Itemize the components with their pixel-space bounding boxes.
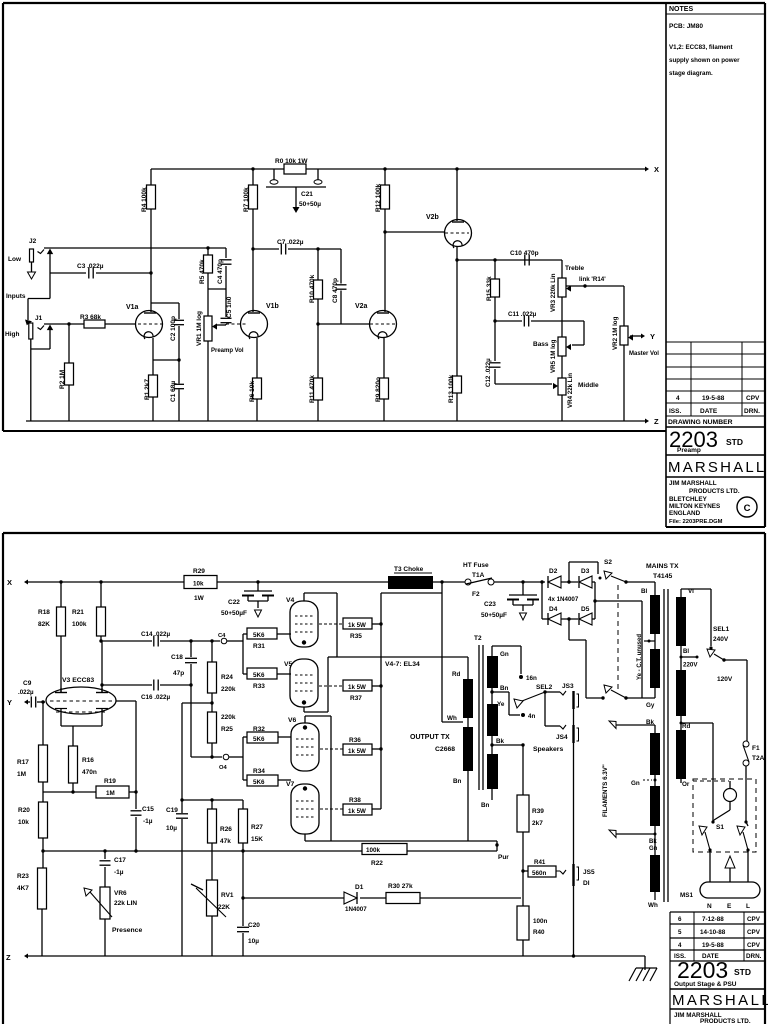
svg-text:Gn: Gn <box>631 780 640 787</box>
wire V3 right to C15 line <box>116 700 136 702</box>
svg-text:1k 5W: 1k 5W <box>348 684 366 691</box>
wire SEL2 branch to JS4 tip <box>544 692 546 726</box>
svg-text:Presence: Presence <box>112 927 142 934</box>
svg-text:E: E <box>727 903 732 910</box>
resistor R21 100k <box>99 580 102 583</box>
sheet border (bottom sheet) <box>3 532 765 534</box>
svg-text:6: 6 <box>678 916 682 923</box>
node X arrow <box>645 167 649 172</box>
node O4 connector wire <box>191 756 222 758</box>
node Y arrow input <box>24 700 28 705</box>
capacitor C10 470p <box>524 255 526 266</box>
wire 16 ohm tap <box>491 646 493 656</box>
svg-text:220k: 220k <box>221 686 236 693</box>
wire J1 sleeve to ground rail <box>49 330 51 349</box>
svg-text:Bk: Bk <box>496 738 505 745</box>
wire bridge right leg to AC2 <box>592 581 595 583</box>
svg-text:50+50µF: 50+50µF <box>221 610 247 617</box>
bottom title block issue table <box>670 911 765 913</box>
resistor R27 15K <box>242 800 244 809</box>
capacitor C21 50+50u to ground arrow <box>295 187 297 207</box>
wire anode to C2 <box>151 302 179 304</box>
valve V7 EL34 <box>291 784 319 834</box>
wire V3 cathode bracket <box>60 709 62 727</box>
valve V6 EL34 <box>291 723 319 771</box>
svg-text:D3: D3 <box>581 568 590 575</box>
resistor R15 33k <box>493 258 496 261</box>
svg-text:R7 100k: R7 100k <box>243 187 250 212</box>
svg-text:CPV: CPV <box>746 395 760 402</box>
wire ground drop and chassis symbol <box>644 956 646 970</box>
svg-text:Gy: Gy <box>646 702 655 709</box>
svg-text:R12 100k: R12 100k <box>375 183 382 212</box>
wire J2 tip to VR1/C4 junction <box>44 247 226 249</box>
svg-text:R39: R39 <box>532 808 544 815</box>
svg-text:22K: 22K <box>218 904 230 911</box>
svg-text:R16: R16 <box>82 757 94 764</box>
svg-text:R27: R27 <box>251 824 263 831</box>
svg-text:Output Stage & PSU: Output Stage & PSU <box>674 981 737 988</box>
resistor R13 100k <box>453 376 462 393</box>
svg-text:R5 470k: R5 470k <box>199 259 206 284</box>
capacitor C12 .022u <box>490 362 501 364</box>
svg-text:R37: R37 <box>350 695 362 702</box>
wire C11 branch <box>495 320 522 322</box>
capacitor C1 68u electrolytic <box>178 360 180 384</box>
wire treble wiper link R14 <box>566 285 624 287</box>
resistor R36 1k 5W <box>320 748 343 750</box>
svg-text:Treble: Treble <box>565 265 585 272</box>
mains TX HT winding <box>650 595 660 634</box>
svg-text:1M: 1M <box>17 771 26 778</box>
svg-text:FILAMENTS 6.3V": FILAMENTS 6.3V" <box>602 764 609 817</box>
resistor R16 470n <box>69 746 78 783</box>
wire V1a cathode to R1 <box>152 338 154 375</box>
wire low branch to C3 <box>50 272 86 274</box>
title block issue table <box>666 341 765 343</box>
svg-text:T1A: T1A <box>472 572 485 579</box>
potentiometer VR4 22k lin Middle <box>561 356 563 378</box>
svg-text:JS4: JS4 <box>556 734 568 741</box>
resistor R23 4K7 <box>41 849 44 852</box>
svg-text:DRN.: DRN. <box>744 408 760 415</box>
svg-text:Bl: Bl <box>683 649 689 655</box>
wire R12 to V2a anode <box>384 209 386 312</box>
resistor R29 10k 1W <box>184 576 217 589</box>
svg-text:T3 Choke: T3 Choke <box>394 566 424 573</box>
resistor R35 1k 5W <box>319 623 343 625</box>
svg-text:100n: 100n <box>533 918 548 925</box>
wire 220V tap <box>680 646 682 670</box>
svg-text:R10 470k: R10 470k <box>309 274 316 303</box>
svg-text:T2: T2 <box>474 635 482 642</box>
resistor R18 82K <box>59 580 62 583</box>
svg-text:Rd: Rd <box>452 671 461 678</box>
svg-text:R3 68k: R3 68k <box>80 314 101 321</box>
svg-text:4x 1N4007: 4x 1N4007 <box>548 596 579 603</box>
triode V1a <box>136 311 163 338</box>
svg-text:C23: C23 <box>484 601 496 608</box>
resistor R30 27k <box>386 893 420 904</box>
resistor R12 100k anode load V2a <box>384 169 386 185</box>
wire V2b anode to B+ rail <box>456 169 458 221</box>
svg-text:C17: C17 <box>114 857 126 864</box>
label Wh heater bottom <box>654 892 656 900</box>
wire heater junction Gn <box>654 775 656 786</box>
capacitor C17 .1u <box>103 849 106 852</box>
svg-text:DRN.: DRN. <box>746 953 762 960</box>
wire R24/R25 junction to NFB line <box>210 701 213 704</box>
svg-text:4: 4 <box>676 395 680 402</box>
svg-text:VR3 220k Lin: VR3 220k Lin <box>550 273 557 312</box>
output transformer T2 primary <box>463 679 473 718</box>
mains TX primary winding <box>676 597 686 646</box>
svg-text:R33: R33 <box>253 683 265 690</box>
svg-text:2k7: 2k7 <box>532 820 543 827</box>
wire V6 anode <box>304 716 306 723</box>
svg-text:240V: 240V <box>713 636 729 643</box>
svg-text:R2 1M: R2 1M <box>59 370 66 389</box>
svg-text:7-12-88: 7-12-88 <box>702 916 724 923</box>
wire X rail <box>28 581 184 583</box>
resistor R24 220k <box>210 639 213 642</box>
svg-text:V3 ECC83: V3 ECC83 <box>62 677 94 684</box>
capacitor C15 .1u <box>135 792 137 809</box>
svg-text:Bn: Bn <box>500 685 509 692</box>
jack JS5 DI <box>572 864 574 886</box>
svg-text:D4: D4 <box>549 606 558 613</box>
svg-text:L: L <box>746 903 750 910</box>
capacitor C22 50+50uF <box>256 580 259 583</box>
svg-text:R19: R19 <box>104 778 116 785</box>
svg-text:C21: C21 <box>301 191 313 198</box>
svg-text:C19: C19 <box>166 807 178 814</box>
svg-text:R34: R34 <box>253 768 265 775</box>
svg-text:5K6: 5K6 <box>253 672 265 679</box>
wire low jack link down to high jack <box>49 253 51 299</box>
wire J1 tip to grid V1a <box>44 323 84 325</box>
svg-text:Preamp: Preamp <box>677 447 701 454</box>
earth arrow <box>725 856 735 868</box>
svg-text:DI: DI <box>583 880 590 887</box>
diode D5 <box>561 618 578 620</box>
svg-text:19-5-88: 19-5-88 <box>702 395 725 402</box>
svg-text:.022µ: .022µ <box>18 689 34 696</box>
svg-text:Gn: Gn <box>649 846 658 852</box>
svg-text:VR4 22k Lin: VR4 22k Lin <box>567 373 574 408</box>
svg-text:V4-7: EL34: V4-7: EL34 <box>385 661 420 668</box>
potentiometer VR6 22k LIN Presence <box>100 887 110 919</box>
svg-text:5K6: 5K6 <box>253 779 265 786</box>
svg-text:Wh: Wh <box>447 715 457 722</box>
svg-text:Bn: Bn <box>453 778 462 785</box>
wire ground bottom rail to Z <box>26 420 645 422</box>
wire bridge bottom loop to S2 pole 2 <box>568 619 570 640</box>
svg-text:MAINS TX: MAINS TX <box>646 563 679 570</box>
wire C7 coupling <box>253 248 279 250</box>
svg-text:100k: 100k <box>72 621 87 628</box>
svg-text:R13 100k: R13 100k <box>448 374 455 403</box>
wire bridge top loop to S2 <box>568 562 570 582</box>
svg-text:DATE: DATE <box>700 408 718 415</box>
svg-text:RV1: RV1 <box>221 892 234 899</box>
potentiometer VR3 220k lin Treble <box>561 260 563 278</box>
svg-text:R29: R29 <box>193 568 205 575</box>
wire O4 node to grid stoppers <box>242 737 244 780</box>
svg-text:120V: 120V <box>717 676 733 683</box>
svg-text:MARSHALL: MARSHALL <box>672 992 768 1009</box>
node X arrow input <box>24 580 28 585</box>
svg-text:link 'R14': link 'R14' <box>579 276 606 283</box>
svg-text:R1 2k7: R1 2k7 <box>144 379 151 400</box>
wire V2a anode to V2b grid <box>385 231 445 233</box>
svg-text:R35: R35 <box>350 633 362 640</box>
svg-text:470n: 470n <box>82 769 97 776</box>
svg-text:C9: C9 <box>23 680 32 687</box>
wire Rd tap to switch <box>680 716 682 730</box>
svg-text:J2: J2 <box>29 238 37 245</box>
svg-text:C20: C20 <box>248 922 260 929</box>
capacitor C2 100p <box>178 303 180 319</box>
fuse F1 T2A <box>743 741 749 747</box>
switch S2 standby pole 2 <box>604 685 612 693</box>
svg-text:4n: 4n <box>528 713 536 720</box>
svg-text:220V: 220V <box>683 662 698 669</box>
svg-text:Z: Z <box>654 417 659 426</box>
svg-text:V1,2: ECC83, filament: V1,2: ECC83, filament <box>669 44 733 51</box>
svg-text:MILTON KEYNES: MILTON KEYNES <box>669 503 720 510</box>
svg-text:C18: C18 <box>171 654 183 661</box>
resistor R20 10k <box>42 792 44 802</box>
wire V4 anode <box>303 593 305 601</box>
wire SEL1 to fuse F1 <box>724 659 747 661</box>
svg-text:R15 33k: R15 33k <box>486 276 493 301</box>
svg-text:V1b: V1b <box>266 303 279 310</box>
wire secondary bottom Bn <box>491 789 493 800</box>
svg-text:File: 2203PRE.DGM: File: 2203PRE.DGM <box>669 519 723 525</box>
valve V3 ECC83 <box>46 687 116 714</box>
svg-text:C1 68µ: C1 68µ <box>170 381 177 402</box>
svg-text:C14 .022µ: C14 .022µ <box>141 631 171 638</box>
svg-text:1k 5W: 1k 5W <box>348 622 366 629</box>
svg-text:R18: R18 <box>38 609 50 616</box>
svg-text:-1µ: -1µ <box>143 818 153 825</box>
jack JS4 speaker <box>572 725 574 743</box>
svg-text:R24: R24 <box>221 674 233 681</box>
svg-text:R9 820o: R9 820o <box>375 377 382 402</box>
svg-text:R11 470k: R11 470k <box>309 375 316 403</box>
potentiometer VR1 1M log Preamp Vol <box>204 316 212 341</box>
svg-text:560n: 560n <box>532 870 547 877</box>
svg-text:15K: 15K <box>251 836 263 843</box>
svg-text:Z: Z <box>6 953 11 962</box>
svg-text:SEL2: SEL2 <box>536 684 553 691</box>
node Pur NFB takeoff <box>496 841 498 851</box>
mains TX heater windings <box>650 733 660 775</box>
svg-text:Y: Y <box>650 332 655 341</box>
wire Or bottom tap to lamp <box>680 779 682 783</box>
svg-text:CPV: CPV <box>747 929 761 936</box>
svg-text:R4 100k: R4 100k <box>141 187 148 212</box>
svg-text:C4: C4 <box>218 633 226 639</box>
wire SEL2 to JS3 tip <box>545 691 560 693</box>
svg-text:C: C <box>744 503 751 514</box>
svg-text:BLETCHLEY: BLETCHLEY <box>669 496 708 503</box>
resistor R1 2k7 <box>149 375 158 397</box>
triode V1b <box>241 311 268 338</box>
standoff terminals under R0 <box>273 169 275 180</box>
svg-text:5: 5 <box>678 929 682 936</box>
svg-text:Gn: Gn <box>500 651 509 658</box>
output transformer T2 secondary <box>487 656 498 688</box>
wire V7 anode <box>304 834 306 841</box>
node Z arrow <box>645 419 649 424</box>
wire B+ to OT centre tap <box>441 593 443 722</box>
svg-text:5K6: 5K6 <box>253 736 265 743</box>
svg-text:Inputs: Inputs <box>6 293 26 300</box>
svg-text:CPV: CPV <box>747 942 761 949</box>
copyright symbol <box>737 497 757 517</box>
svg-text:47k: 47k <box>220 838 231 845</box>
svg-text:C8 470p: C8 470p <box>332 278 339 303</box>
wire screens bus <box>440 580 443 583</box>
resistor R25 220k <box>208 712 217 743</box>
svg-text:4: 4 <box>678 942 682 949</box>
svg-text:ISS.: ISS. <box>669 408 681 415</box>
bottom drawing number 2203 STD Output Stage and PSU <box>669 961 671 1024</box>
svg-text:OUTPUT TX: OUTPUT TX <box>410 734 450 741</box>
svg-text:R31: R31 <box>253 643 265 650</box>
resistor R41 560n to DI jack <box>521 869 524 872</box>
svg-text:DRAWING NUMBER: DRAWING NUMBER <box>668 419 733 426</box>
diode D2 <box>540 580 543 583</box>
svg-text:VR2 1M log: VR2 1M log <box>612 316 619 350</box>
mains plug MS1 <box>700 882 760 898</box>
svg-text:Speakers: Speakers <box>533 746 563 753</box>
capacitor C19 10u <box>176 813 188 815</box>
svg-text:supply shown on power: supply shown on power <box>669 57 740 64</box>
wire C18 junction down to O4 wire <box>190 685 192 757</box>
svg-text:220k: 220k <box>221 714 236 721</box>
capacitor C8 470p <box>340 249 342 284</box>
svg-text:R41: R41 <box>534 859 546 866</box>
capacitor C23 50+50uF <box>521 580 524 583</box>
svg-text:Or: Or <box>682 781 690 788</box>
svg-text:Wh: Wh <box>648 902 658 909</box>
svg-text:50+50µF: 50+50µF <box>481 612 507 619</box>
resistor R38 1k 5W <box>320 808 343 810</box>
svg-text:C5 1n0: C5 1n0 <box>226 296 233 318</box>
svg-text:MS1: MS1 <box>680 892 693 899</box>
capacitor C5 1n0 <box>225 289 227 317</box>
diode D3 <box>561 581 578 583</box>
svg-text:R0 10k 1W: R0 10k 1W <box>275 158 308 165</box>
svg-text:JS5: JS5 <box>583 869 595 876</box>
svg-text:10k: 10k <box>193 581 204 588</box>
svg-text:19-5-88: 19-5-88 <box>702 942 724 949</box>
svg-text:Ye - C.T. unused: Ye - C.T. unused <box>637 634 643 680</box>
wire R10 bottom to grid wire <box>317 299 319 324</box>
fuse F2 HT Fuse T1A <box>465 579 471 585</box>
svg-text:V4: V4 <box>286 597 295 604</box>
resistor R7 100k anode load V1b <box>252 169 254 185</box>
diode D4 <box>541 582 543 619</box>
svg-text:STD: STD <box>726 437 743 447</box>
svg-text:1k 5W: 1k 5W <box>348 808 366 815</box>
capacitor C20 10u <box>241 849 244 852</box>
svg-text:V1a: V1a <box>126 304 139 311</box>
svg-text:X: X <box>654 165 659 174</box>
triode V2b <box>445 220 472 247</box>
svg-text:R21: R21 <box>72 609 84 616</box>
switch S1 dashed enclosure <box>693 779 756 852</box>
svg-text:C2 100p: C2 100p <box>170 316 177 341</box>
resistor R2 1M <box>67 322 70 325</box>
resistor R6 10k cathode V1b <box>256 338 258 378</box>
wire cathode follower to tone stack <box>457 259 562 261</box>
svg-text:1N4007: 1N4007 <box>345 906 367 913</box>
svg-text:R38: R38 <box>349 797 361 804</box>
svg-text:14-10-88: 14-10-88 <box>700 929 726 936</box>
resistor R37 1k 5W <box>319 685 343 687</box>
svg-text:Bn: Bn <box>481 802 490 809</box>
svg-text:O4: O4 <box>219 765 228 771</box>
potentiometer RV1 22K <box>207 880 218 916</box>
wire B+ top rail to X <box>151 168 284 170</box>
svg-text:D1: D1 <box>355 884 364 891</box>
svg-text:5K6: 5K6 <box>253 632 265 639</box>
resistor R22 100k NFB <box>362 844 407 855</box>
svg-text:T2A: T2A <box>752 755 765 762</box>
svg-text:PRODUCTS LTD.: PRODUCTS LTD. <box>700 1018 751 1024</box>
switch S2 mechanical link dashed <box>617 585 619 692</box>
wire grid V2a <box>318 323 370 325</box>
wire 4 ohm tap <box>508 692 510 715</box>
svg-text:STD: STD <box>734 967 751 977</box>
svg-text:Bk: Bk <box>649 839 657 845</box>
svg-text:1W: 1W <box>194 595 205 602</box>
svg-text:C15: C15 <box>142 806 154 813</box>
switch S1 pole 1 <box>699 826 707 835</box>
svg-text:22k LIN: 22k LIN <box>114 900 137 907</box>
svg-text:T4145: T4145 <box>653 573 672 580</box>
svg-text:C2668: C2668 <box>435 746 455 753</box>
svg-text:V7: V7 <box>286 781 295 788</box>
svg-text:N: N <box>707 903 712 910</box>
resistor R11 470k grid leak V2a <box>316 322 319 325</box>
svg-text:S1: S1 <box>716 824 724 831</box>
svg-text:VR1 1M log: VR1 1M log <box>196 311 203 346</box>
svg-text:JS3: JS3 <box>562 683 574 690</box>
resistor R4 100k anode load V1a <box>150 169 152 185</box>
svg-text:1M: 1M <box>106 790 115 797</box>
svg-text:J1: J1 <box>35 315 43 322</box>
svg-text:C16 .022µ: C16 .022µ <box>141 694 171 701</box>
resistor R3 68k <box>84 320 105 328</box>
svg-text:R20: R20 <box>18 807 30 814</box>
svg-text:CPV: CPV <box>747 916 761 923</box>
svg-text:Preamp Vol: Preamp Vol <box>211 348 244 354</box>
svg-text:PCB: JM80: PCB: JM80 <box>669 23 703 30</box>
wire cathode junction to C1 <box>153 359 179 361</box>
wire anode pair to OT brown end <box>331 840 468 842</box>
svg-text:4K7: 4K7 <box>17 885 29 892</box>
mains transformer core <box>663 589 665 902</box>
wire jack sleeve ground bus <box>573 709 575 956</box>
capacitor C4 470p <box>225 248 227 258</box>
svg-text:NOTES: NOTES <box>669 6 693 13</box>
svg-text:R17: R17 <box>17 759 29 766</box>
